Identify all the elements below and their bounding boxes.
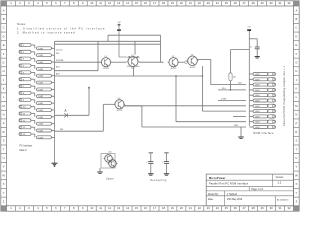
- svg-text:100R: 100R: [255, 122, 260, 124]
- svg-text:P: P: [296, 121, 298, 125]
- svg-text:Q2: Q2: [172, 56, 175, 58]
- svg-text:100R: 100R: [38, 48, 43, 50]
- svg-text:A4 20100515: A4 20100515: [277, 199, 288, 202]
- svg-text:11: 11: [99, 206, 102, 210]
- svg-text:D0.CLK: D0.CLK: [56, 50, 63, 52]
- svg-text:N: N: [295, 113, 297, 117]
- svg-text:24: 24: [216, 1, 219, 5]
- svg-text:D: D: [295, 34, 297, 38]
- svg-text:B: B: [3, 17, 5, 21]
- svg-text:G: G: [3, 60, 5, 64]
- svg-text:100R: 100R: [38, 55, 43, 57]
- svg-text:C: C: [295, 26, 297, 30]
- svg-text:19: 19: [171, 206, 174, 210]
- svg-text:W: W: [295, 173, 298, 177]
- svg-text:Male 9: Male 9: [20, 150, 28, 152]
- svg-text:23: 23: [207, 1, 210, 5]
- svg-text:Drawn By:: Drawn By:: [208, 193, 219, 196]
- svg-text:H: H: [295, 69, 297, 73]
- svg-text:A: A: [3, 8, 5, 12]
- svg-text:N: N: [3, 113, 5, 117]
- svg-text:BC559: BC559: [117, 110, 123, 112]
- svg-text:26: 26: [234, 1, 237, 5]
- svg-text:100R: 100R: [255, 116, 260, 118]
- svg-text:100R: 100R: [38, 89, 43, 91]
- svg-text:4011: 4011: [131, 68, 135, 70]
- svg-text:4k7: 4k7: [233, 77, 236, 79]
- svg-text:100R: 100R: [38, 137, 43, 139]
- svg-text:22: 22: [198, 1, 201, 5]
- svg-text:22: 22: [198, 206, 201, 210]
- svg-text:C1: C1: [250, 47, 252, 49]
- svg-text:U1: U1: [131, 55, 133, 57]
- svg-text:11: 11: [99, 1, 102, 5]
- svg-text:20: 20: [180, 206, 183, 210]
- svg-text:Notes:: Notes:: [17, 22, 26, 26]
- svg-text:U: U: [295, 156, 297, 160]
- svg-text:V: V: [296, 165, 298, 169]
- svg-text:17: 17: [153, 1, 156, 5]
- svg-text:26: 26: [234, 206, 237, 210]
- svg-text:BC549: BC549: [171, 68, 177, 70]
- svg-text:29: 29: [261, 1, 264, 5]
- svg-text:28: 28: [252, 206, 255, 210]
- svg-text:28: 28: [252, 1, 255, 5]
- svg-text:18: 18: [162, 206, 165, 210]
- svg-text:G: G: [295, 60, 297, 64]
- svg-text:1. Simplified version of the P: 1. Simplified version of the PC interfac…: [17, 27, 105, 31]
- svg-text:100R: 100R: [255, 100, 260, 102]
- svg-text:D1: D1: [64, 111, 66, 113]
- svg-text:100R: 100R: [255, 74, 260, 76]
- svg-text:12: 12: [108, 1, 111, 5]
- svg-text:100R: 100R: [255, 127, 260, 129]
- svg-text:31: 31: [279, 1, 282, 5]
- svg-text:Page 1 of 1: Page 1 of 1: [252, 189, 264, 191]
- svg-text:100R: 100R: [38, 76, 43, 78]
- svg-text:15: 15: [135, 1, 138, 5]
- svg-text:10: 10: [90, 206, 93, 210]
- svg-text:Q1: Q1: [104, 56, 107, 58]
- svg-text:100R: 100R: [38, 96, 43, 98]
- svg-text:Y: Y: [3, 191, 5, 195]
- svg-text:R: R: [3, 130, 5, 134]
- svg-text:10: 10: [90, 1, 93, 5]
- svg-text:25: 25: [225, 206, 228, 210]
- svg-text:100R: 100R: [38, 117, 43, 119]
- svg-text:25: 25: [225, 1, 228, 5]
- svg-text:R: R: [295, 130, 297, 134]
- svg-text:13: 13: [117, 206, 120, 210]
- svg-text:19: 19: [171, 1, 174, 5]
- svg-text:E: E: [3, 43, 5, 47]
- svg-text:100R: 100R: [38, 69, 43, 71]
- svg-text:X: X: [296, 182, 298, 186]
- svg-text:X: X: [3, 182, 5, 186]
- svg-text:100R: 100R: [255, 85, 260, 87]
- svg-text:14: 14: [126, 1, 129, 5]
- svg-text:Q4: Q4: [118, 98, 121, 100]
- svg-text:100R: 100R: [255, 111, 260, 113]
- svg-text:SEL: SEL: [56, 53, 59, 55]
- svg-text:31: 31: [279, 206, 282, 210]
- svg-text:100R: 100R: [38, 83, 43, 85]
- svg-text:30: 30: [270, 206, 273, 210]
- svg-text:16: 16: [144, 206, 147, 210]
- svg-text:27: 27: [243, 1, 246, 5]
- svg-text:13: 13: [117, 1, 120, 5]
- svg-text:S: S: [3, 139, 5, 143]
- svg-text:J Harland: J Harland: [227, 193, 238, 196]
- svg-text:24: 24: [216, 206, 219, 210]
- svg-text:1.1: 1.1: [277, 181, 282, 185]
- svg-text:STROBE: STROBE: [56, 60, 64, 62]
- svg-text:29: 29: [261, 206, 264, 210]
- svg-text:100R: 100R: [38, 110, 43, 112]
- svg-text:27: 27: [243, 206, 246, 210]
- svg-text:Serial EEPROM Programming Adap: Serial EEPROM Programming Adapter Rev 1.…: [283, 65, 286, 126]
- svg-text:100R: 100R: [255, 95, 260, 97]
- svg-text:100R: 100R: [255, 90, 260, 92]
- svg-text:H: H: [3, 69, 5, 73]
- svg-text:14: 14: [126, 206, 129, 210]
- svg-text:P: P: [3, 121, 5, 125]
- svg-text:Date:: Date:: [208, 198, 214, 201]
- svg-text:K: K: [3, 87, 5, 91]
- svg-text:D: D: [3, 34, 5, 38]
- svg-text:18: 18: [162, 1, 165, 5]
- svg-text:ROM Interface: ROM Interface: [254, 132, 274, 135]
- svg-text:15: 15: [135, 206, 138, 210]
- svg-text:B: B: [296, 17, 298, 21]
- svg-text:PC Interface: PC Interface: [20, 145, 33, 148]
- svg-text:Q3: Q3: [191, 54, 194, 56]
- svg-text:A15: A15: [238, 82, 241, 85]
- svg-text:Decoupling: Decoupling: [150, 180, 167, 182]
- svg-text:E: E: [296, 43, 298, 47]
- svg-text:23: 23: [207, 206, 210, 210]
- svg-text:MicroPower: MicroPower: [209, 176, 226, 180]
- svg-text:30: 30: [270, 1, 273, 5]
- svg-text:21: 21: [189, 206, 192, 210]
- svg-text:100R: 100R: [38, 62, 43, 64]
- svg-text:K: K: [296, 87, 298, 91]
- svg-text:17: 17: [153, 206, 156, 210]
- svg-text:16: 16: [144, 1, 147, 5]
- svg-text:V: V: [3, 165, 5, 169]
- svg-text:100R: 100R: [38, 103, 43, 105]
- svg-text:S: S: [296, 139, 298, 143]
- svg-text:100R: 100R: [255, 79, 260, 81]
- svg-text:21: 21: [189, 1, 192, 5]
- svg-text:BC549: BC549: [190, 67, 196, 69]
- svg-text:A: A: [296, 8, 298, 12]
- svg-text:BC549: BC549: [103, 68, 109, 70]
- svg-text:Version: Version: [276, 176, 284, 179]
- svg-text:C: C: [3, 26, 5, 30]
- svg-text:32: 32: [288, 1, 291, 5]
- svg-text:32: 32: [288, 206, 291, 210]
- svg-text:2. Modified to improve speed: 2. Modified to improve speed: [17, 31, 76, 35]
- svg-text:Parallel Port PC ROM Interface: Parallel Port PC ROM Interface: [209, 183, 249, 186]
- svg-text:U: U: [3, 156, 5, 160]
- svg-text:20: 20: [180, 1, 183, 5]
- svg-text:12: 12: [108, 206, 111, 210]
- svg-text:100R: 100R: [38, 124, 43, 126]
- svg-text:GND: GND: [234, 125, 239, 127]
- svg-text:100R: 100R: [255, 106, 260, 108]
- svg-text:Y: Y: [296, 191, 298, 195]
- svg-text:100R: 100R: [38, 130, 43, 132]
- svg-text:Spare: Spare: [106, 177, 114, 180]
- svg-text:15th May 2010: 15th May 2010: [227, 198, 243, 201]
